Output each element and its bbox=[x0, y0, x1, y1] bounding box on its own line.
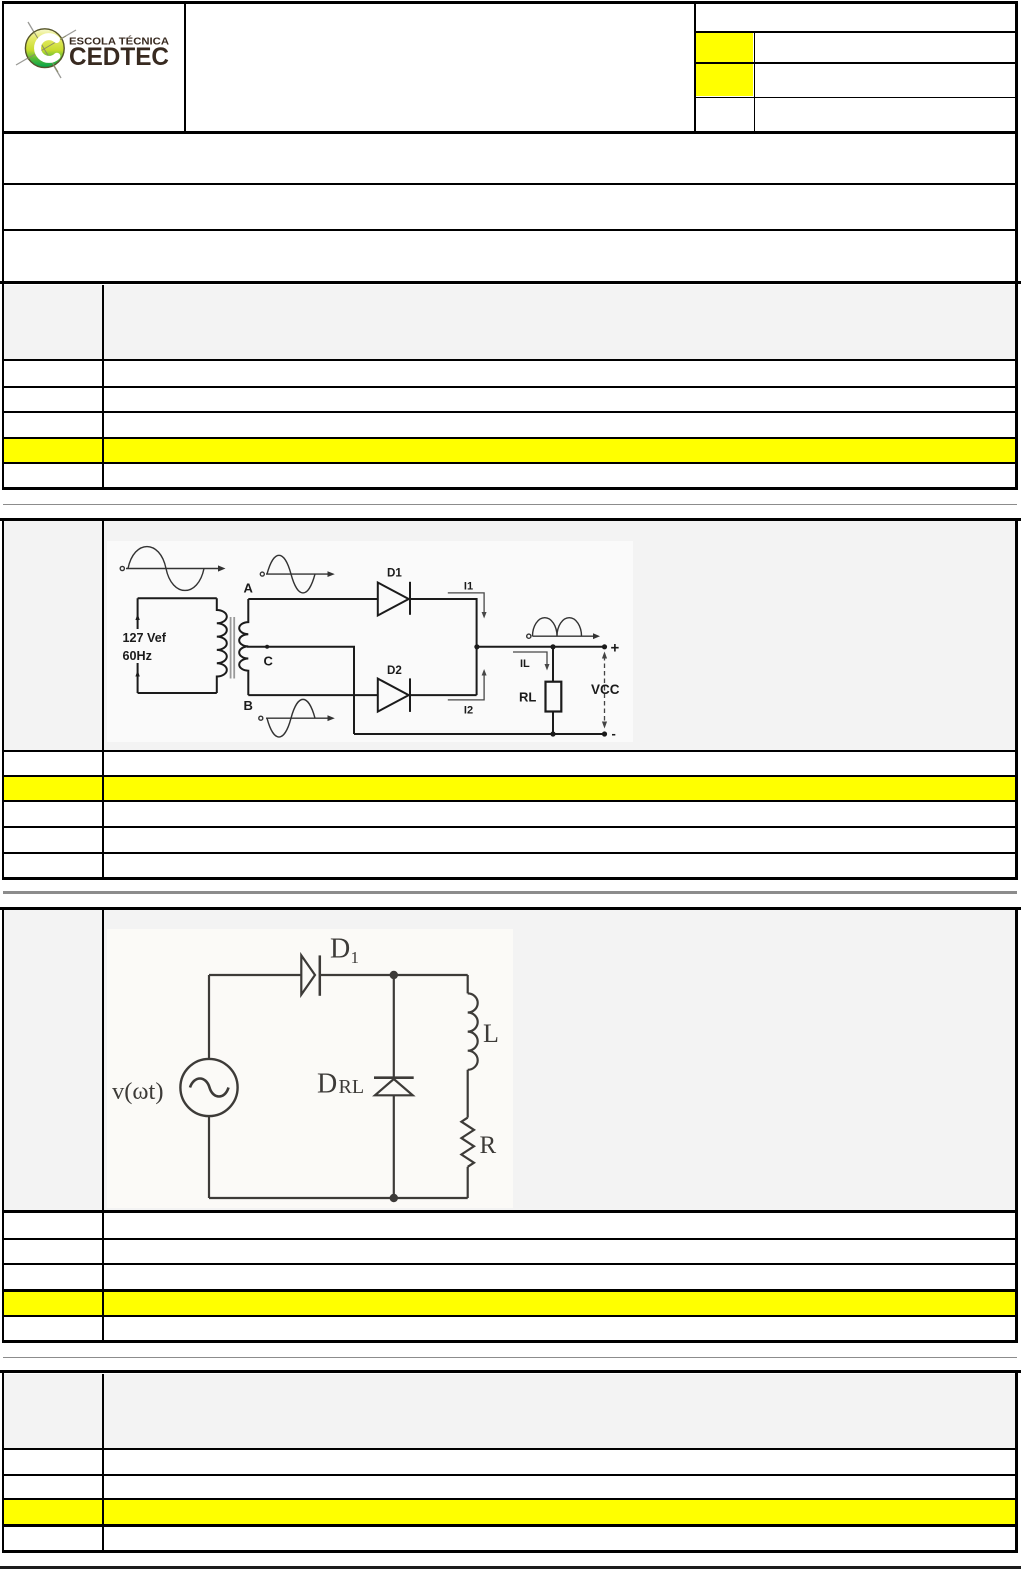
node junction dot bbox=[474, 644, 479, 649]
diode D1 bbox=[301, 955, 315, 994]
svg-text:D1: D1 bbox=[387, 567, 402, 580]
q3 yellow option row bbox=[4, 1292, 1015, 1315]
q3 side borders bbox=[2, 907, 4, 1343]
separator line 1 bbox=[3, 504, 1017, 506]
wire primary left bbox=[137, 598, 139, 693]
circuit image 2: half-wave rectifier with freewheeling diode and RL load bbox=[107, 929, 513, 1208]
q1 column divider bbox=[102, 285, 104, 491]
needle over sphere bbox=[34, 32, 58, 72]
node C tap dot bbox=[265, 645, 269, 649]
header right: line3 bbox=[694, 97, 1015, 99]
q2 column divider bbox=[102, 521, 104, 877]
core lines bbox=[230, 617, 232, 679]
node - terminal dot bbox=[602, 731, 607, 736]
svg-text:RL: RL bbox=[519, 690, 536, 705]
node bottom junction bbox=[390, 1194, 398, 1202]
resistor R bbox=[461, 1118, 474, 1167]
q4 top border bbox=[0, 1370, 1021, 1373]
svg-text:A: A bbox=[244, 581, 254, 596]
rectified output symbol bbox=[527, 618, 594, 639]
wire top bbox=[209, 974, 301, 976]
header yellow cell 1 bbox=[696, 33, 754, 62]
wire bottom return bbox=[354, 733, 606, 735]
svg-text:-: - bbox=[612, 726, 616, 741]
svg-text:D: D bbox=[317, 1069, 337, 1100]
q1 top border (thick) bbox=[0, 281, 1021, 284]
q3 bottom border bbox=[2, 1340, 1018, 1343]
svg-text:IL: IL bbox=[520, 658, 530, 670]
row A side borders bbox=[2, 133, 4, 282]
wire right branch bbox=[467, 975, 469, 993]
CEDTEC logo bbox=[14, 18, 174, 82]
wire output bbox=[477, 646, 605, 648]
header right: line2 bbox=[694, 62, 1015, 64]
source v(wt) bbox=[180, 1059, 237, 1116]
header right border bbox=[1015, 1, 1018, 133]
wire center tap C bbox=[247, 647, 354, 734]
svg-text:VCC: VCC bbox=[591, 682, 620, 697]
row B bottom line bbox=[2, 229, 1017, 231]
q4 gray header row bbox=[4, 1374, 1015, 1448]
svg-text:60Hz: 60Hz bbox=[123, 649, 152, 663]
inductor L bbox=[468, 993, 478, 1069]
q3 top border bbox=[0, 907, 1021, 910]
separator line 3 bbox=[3, 1357, 1017, 1359]
wire primary bottom bbox=[138, 692, 217, 694]
q1 row lines bbox=[2, 359, 1017, 361]
needle line 1 bbox=[28, 22, 61, 78]
svg-text:127 Vef: 127 Vef bbox=[123, 631, 167, 645]
wire RL branch bbox=[552, 647, 554, 682]
sine symbol at A bbox=[260, 555, 328, 593]
svg-text:I2: I2 bbox=[464, 705, 473, 717]
resistor RL bbox=[546, 682, 562, 712]
wire middle branch bbox=[393, 975, 395, 1078]
node RL top dot bbox=[550, 644, 555, 649]
node + terminal dot bbox=[602, 644, 607, 649]
current marker IL bbox=[513, 652, 547, 665]
svg-text:v(ωt): v(ωt) bbox=[112, 1078, 164, 1105]
wire node B bbox=[248, 694, 377, 696]
q2 bottom border bbox=[2, 877, 1018, 880]
inductor secondary winding bbox=[239, 599, 248, 695]
circuit image 1: full-wave rectifier with center-tap transformer bbox=[107, 541, 633, 742]
arrows on primary loop bbox=[135, 614, 139, 620]
svg-text:C: C bbox=[264, 654, 274, 669]
q4 bottom border bbox=[2, 1550, 1018, 1553]
svg-text:1: 1 bbox=[351, 948, 360, 967]
diode D2 bbox=[378, 679, 409, 712]
sine source symbol top-left bbox=[120, 547, 220, 591]
wire primary top bbox=[138, 597, 217, 599]
q3 row lines bbox=[2, 1210, 1017, 1213]
q4 yellow option row bbox=[4, 1500, 1015, 1524]
q3 image row gray bg bbox=[4, 910, 1015, 1211]
needle line 2 bbox=[16, 30, 76, 65]
header outer top border bbox=[2, 1, 1017, 4]
header divider middle/right bbox=[694, 1, 696, 131]
svg-text:CEDTEC: CEDTEC bbox=[69, 43, 169, 71]
q4 row lines bbox=[2, 1448, 1017, 1450]
header left border bbox=[2, 1, 4, 133]
svg-text:RL: RL bbox=[339, 1076, 365, 1098]
q1 bottom border bbox=[2, 487, 1018, 490]
VCC dashed arrows bbox=[604, 656, 606, 723]
node RL bottom dot bbox=[550, 731, 555, 736]
svg-text:I1: I1 bbox=[464, 581, 473, 593]
bottom page line (next table cut off) bbox=[0, 1566, 1021, 1569]
q4 side borders bbox=[2, 1370, 4, 1553]
wire node A bbox=[248, 598, 377, 600]
svg-text:L: L bbox=[483, 1019, 499, 1048]
svg-text:+: + bbox=[611, 640, 620, 657]
row A bottom line bbox=[2, 183, 1017, 185]
current marker I1 bbox=[448, 593, 484, 613]
q2 side borders bbox=[2, 518, 4, 880]
sine symbol at B (inverted) bbox=[259, 699, 328, 737]
header right: thick line under first row bbox=[694, 31, 1015, 33]
label background bbox=[120, 629, 176, 663]
header divider logo/middle bbox=[184, 1, 186, 131]
diode DRL (freewheeling) bbox=[374, 1076, 414, 1079]
q2 yellow option row bbox=[4, 777, 1015, 799]
header outer bottom border bbox=[2, 131, 1017, 134]
wire bottom bbox=[209, 1197, 468, 1199]
q4 column divider bbox=[102, 1374, 104, 1553]
q2 top border bbox=[0, 518, 1021, 521]
wire D1 cathode to junction bbox=[410, 599, 477, 695]
current marker I2 bbox=[448, 675, 484, 700]
sphere bbox=[25, 29, 64, 68]
inductor primary winding bbox=[217, 598, 227, 693]
wire D2 cathode to junction bbox=[410, 694, 477, 696]
q1 side borders bbox=[2, 281, 4, 490]
svg-text:D: D bbox=[330, 934, 350, 965]
q2 row lines bbox=[2, 750, 1017, 752]
separator line 2 bbox=[3, 891, 1017, 893]
header right: small column divider bbox=[754, 31, 756, 133]
q2 image row gray bg bbox=[4, 521, 1015, 750]
q1 gray header row bbox=[4, 285, 1015, 359]
svg-text:D2: D2 bbox=[387, 664, 402, 677]
q3 column divider bbox=[102, 910, 104, 1340]
wire left branch bbox=[208, 975, 210, 1059]
header yellow cell 2 bbox=[696, 64, 754, 97]
white C bbox=[38, 37, 57, 60]
diode D1 bbox=[378, 583, 409, 616]
q1 yellow option row bbox=[4, 439, 1015, 462]
node after D1 bbox=[390, 971, 398, 979]
svg-text:B: B bbox=[244, 698, 253, 713]
svg-text:R: R bbox=[480, 1132, 497, 1159]
